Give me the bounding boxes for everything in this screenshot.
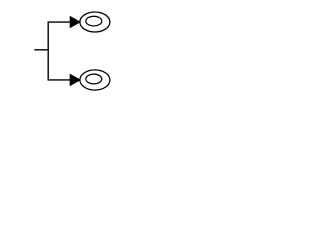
node top: inner ellipse xyxy=(86,16,102,26)
node bottom: outer ellipse xyxy=(80,70,110,90)
arrowhead to bottom node xyxy=(70,74,80,86)
wire: vertical trunk with top and bottom branches xyxy=(48,22,70,80)
node top: outer ellipse xyxy=(80,12,110,32)
node bottom: inner ellipse xyxy=(86,74,102,84)
wire: left stub xyxy=(34,49,49,51)
arrowhead to top node xyxy=(70,16,80,28)
